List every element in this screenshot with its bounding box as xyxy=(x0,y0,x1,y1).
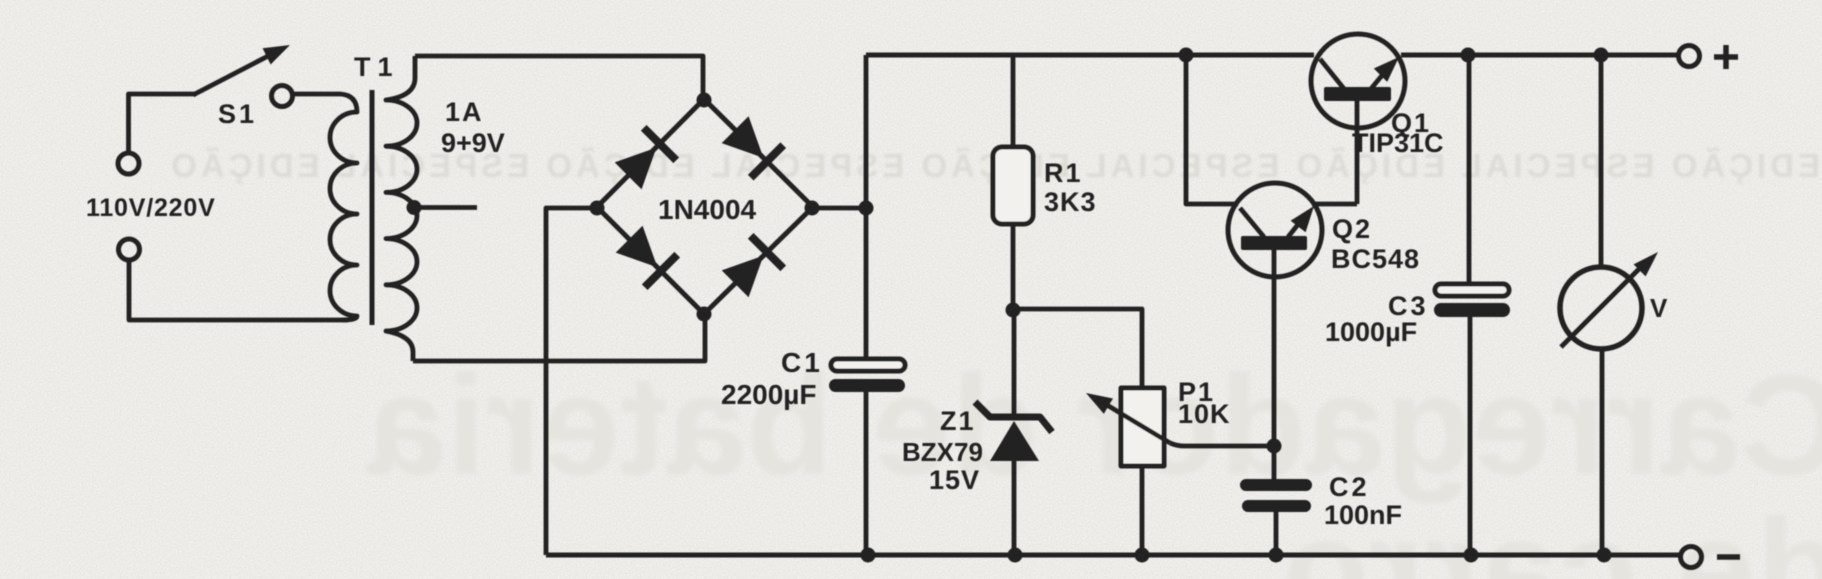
transistor Q2 collector line xyxy=(1240,208,1264,237)
node: rail/C3 junction xyxy=(1461,48,1476,63)
wire: upper terminal to switch xyxy=(129,94,197,153)
P1 wiper line xyxy=(1102,402,1170,443)
transistor Q1 circle xyxy=(1311,34,1405,128)
potentiometer P1 body xyxy=(1121,388,1164,466)
input terminal lower xyxy=(119,239,140,260)
bottom - rail xyxy=(546,553,1679,558)
transistor Q1 base lead xyxy=(1355,101,1360,204)
voltmeter needle xyxy=(1561,266,1642,347)
wire: +rail vertical through C1 xyxy=(864,55,869,555)
capacitor C2 bottom plate xyxy=(1242,500,1311,512)
node: bridge output junction xyxy=(859,201,874,216)
svg-text:Q2: Q2 xyxy=(1332,214,1372,244)
switch S1 terminal xyxy=(272,86,293,107)
svg-text:3K3: 3K3 xyxy=(1044,187,1097,217)
svg-text:R1: R1 xyxy=(1044,158,1083,188)
node: bottom rail C2 xyxy=(1269,548,1284,563)
transistor Q1 base bar xyxy=(1324,87,1391,101)
resistor R1 leads xyxy=(1011,55,1016,310)
svg-text:100nF: 100nF xyxy=(1324,500,1402,530)
label + xyxy=(1714,45,1738,69)
label - xyxy=(1717,554,1740,560)
voltmeter V circle xyxy=(1560,267,1642,349)
wire: center tap stub xyxy=(418,205,477,210)
transformer T1 core xyxy=(370,90,375,325)
svg-text:S1: S1 xyxy=(218,99,257,129)
svg-text:1A: 1A xyxy=(445,97,484,127)
capacitor C3 top plate xyxy=(1435,284,1509,296)
wire: rail to Q2 collector net xyxy=(1186,55,1357,204)
svg-text:2200µF: 2200µF xyxy=(721,379,817,410)
output terminal + xyxy=(1679,46,1700,67)
transformer T1 secondary winding xyxy=(386,56,417,361)
node: rail/meter junction xyxy=(1594,48,1609,63)
wire: secondary bottom to bridge bottom xyxy=(413,316,705,361)
wire: zener lead xyxy=(1012,310,1017,555)
node: bridge left xyxy=(590,201,605,216)
transistor Q2 base bar xyxy=(1241,236,1307,250)
svg-text:C1: C1 xyxy=(781,347,823,378)
node: rail/Q2 junction xyxy=(1179,48,1194,63)
P1 wiper arrowhead xyxy=(1086,393,1113,414)
wire: wiper to Q2 base line xyxy=(1170,443,1274,446)
resistor R1 body xyxy=(993,147,1033,224)
input terminal upper xyxy=(118,153,139,174)
wire: C2 to bottom rail xyxy=(1274,512,1279,555)
output terminal - xyxy=(1681,547,1702,568)
capacitor C1 top plate xyxy=(831,359,905,371)
transformer T1 primary winding xyxy=(293,94,358,320)
wire: junction to P1 top xyxy=(1013,309,1142,388)
diode D1 top-left xyxy=(612,125,679,192)
node: bottom rail P1 xyxy=(1135,548,1150,563)
diode D2 top-right xyxy=(719,113,786,180)
switch S1 lever xyxy=(193,54,272,95)
svg-text:V: V xyxy=(1650,293,1668,323)
wire: bridge left node to bottom rail xyxy=(546,208,597,555)
wire: bridge right node to +rail xyxy=(813,206,866,211)
node: R1/Z1 junction xyxy=(1006,303,1021,318)
svg-text:Z1: Z1 xyxy=(940,406,976,436)
node: secondary center tap xyxy=(407,200,422,215)
voltmeter needle arrowhead xyxy=(1634,252,1658,276)
capacitor C2 top plate xyxy=(1240,479,1312,491)
zener Z1 bar with wings xyxy=(975,402,1052,432)
svg-text:TIP31C: TIP31C xyxy=(1352,128,1444,158)
wire: meter leads xyxy=(1601,55,1602,555)
diode D4 bottom-right xyxy=(719,233,786,300)
svg-text:9+9V: 9+9V xyxy=(441,128,505,158)
capacitor C3 bottom plate xyxy=(1434,303,1510,317)
svg-text:C2: C2 xyxy=(1329,472,1370,502)
transistor Q1 collector line xyxy=(1320,59,1345,90)
node: bottom rail C1 xyxy=(861,548,876,563)
node: bottom rail Z1 xyxy=(1008,548,1023,563)
node: bridge top xyxy=(697,93,712,108)
svg-text:1000µF: 1000µF xyxy=(1325,317,1417,347)
node: bottom rail meter xyxy=(1597,548,1612,563)
transistor Q2 circle xyxy=(1228,183,1322,277)
transistor Q2 emitter line xyxy=(1288,222,1300,237)
svg-text:110V/220V: 110V/220V xyxy=(86,194,216,222)
svg-text:10K: 10K xyxy=(1178,399,1231,429)
node: bridge right xyxy=(805,201,820,216)
top + rail xyxy=(866,53,1678,58)
svg-text:BZX79: BZX79 xyxy=(902,437,983,467)
node: wiper junction xyxy=(1267,439,1282,454)
svg-text:T1: T1 xyxy=(354,52,400,82)
transistor Q1 emitter arrowhead xyxy=(1374,57,1399,82)
capacitor C1 bottom plate xyxy=(829,379,905,392)
wire: Q2 base lead down to C2 xyxy=(1272,250,1277,479)
transistor Q2 emitter arrowhead xyxy=(1291,206,1314,232)
node: bridge bottom xyxy=(697,307,712,322)
svg-text:15V: 15V xyxy=(929,465,980,495)
wire: lower terminal to primary bottom xyxy=(129,260,348,320)
svg-text:BC548: BC548 xyxy=(1331,244,1420,274)
zener Z1 triangle xyxy=(990,421,1039,461)
svg-text:1N4004: 1N4004 xyxy=(658,194,757,225)
node: bottom rail C3 xyxy=(1464,548,1479,563)
bridge rectifier 1N4004 diamond xyxy=(597,99,813,314)
switch S1 arrowhead xyxy=(263,45,290,65)
transistor Q1 emitter line xyxy=(1370,73,1384,90)
potentiometer P1 bottom lead xyxy=(1140,466,1145,555)
diode D3 bottom-left xyxy=(613,223,680,290)
wire: C3 leads xyxy=(1469,55,1470,555)
wire: secondary top to bridge top xyxy=(415,56,703,100)
